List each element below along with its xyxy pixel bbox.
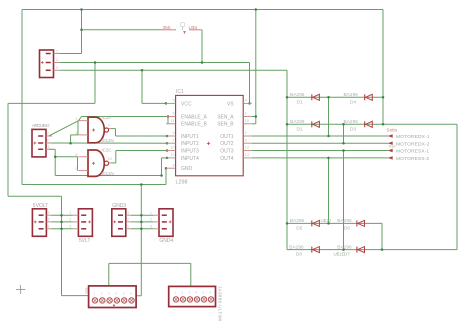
svg-text:GND4: GND4 <box>159 238 173 244</box>
svg-text:MOTORESX-2: MOTORESX-2 <box>396 156 429 162</box>
svg-text:9: 9 <box>75 167 77 171</box>
svg-text:1: 1 <box>69 211 71 215</box>
svg-text:BA296: BA296 <box>289 244 304 250</box>
svg-text:VS: VS <box>227 101 234 107</box>
svg-text:2: 2 <box>47 139 49 143</box>
svg-text:OUT1: OUT1 <box>220 134 234 140</box>
svg-text:INPUT4: INPUT4 <box>181 156 199 162</box>
svg-text:3: 3 <box>69 224 71 228</box>
svg-text:U$10: U$10 <box>321 218 332 223</box>
svg-text:JA3886-ULTIMI: JA3886-ULTIMI <box>217 286 222 322</box>
svg-text:ENABLE_A: ENABLE_A <box>181 114 208 120</box>
svg-text:OUT2: OUT2 <box>220 141 234 147</box>
svg-text:3: 3 <box>108 124 110 128</box>
svg-text:MOTOREDX-1: MOTOREDX-1 <box>396 134 430 140</box>
svg-text:GND3: GND3 <box>112 203 126 209</box>
svg-text:BA296: BA296 <box>344 92 359 98</box>
svg-text:BA296: BA296 <box>344 119 359 125</box>
svg-text:13: 13 <box>245 146 249 150</box>
svg-text:GND: GND <box>181 166 193 172</box>
svg-text:4011N: 4011N <box>101 138 114 143</box>
svg-text:3: 3 <box>47 132 49 136</box>
svg-text:12: 12 <box>170 153 174 157</box>
svg-text:VCC: VCC <box>181 101 192 107</box>
svg-text:3: 3 <box>127 211 129 215</box>
svg-text:D8: D8 <box>296 252 302 258</box>
svg-text:OUT4: OUT4 <box>220 156 234 162</box>
svg-text:15: 15 <box>245 119 249 123</box>
svg-text:8: 8 <box>75 153 77 157</box>
svg-text:D2: D2 <box>297 126 303 132</box>
svg-text:3: 3 <box>245 138 247 142</box>
svg-text:ARDUINO: ARDUINO <box>32 123 50 128</box>
svg-text:N$6: N$6 <box>389 144 396 148</box>
svg-text:1: 1 <box>150 211 152 215</box>
svg-text:11: 11 <box>171 119 175 123</box>
svg-text:IC2C: IC2C <box>102 148 112 153</box>
svg-text:2: 2 <box>69 218 71 222</box>
svg-text:IC1: IC1 <box>176 89 184 95</box>
svg-text:2: 2 <box>75 131 77 135</box>
svg-text:1: 1 <box>48 224 50 228</box>
svg-text:1: 1 <box>56 49 58 53</box>
svg-text:7: 7 <box>172 138 174 142</box>
svg-text:6: 6 <box>172 112 174 116</box>
svg-text:10: 10 <box>170 146 174 150</box>
svg-text:D6: D6 <box>344 225 350 231</box>
svg-text:2: 2 <box>48 218 50 222</box>
svg-text:4011N: 4011N <box>101 171 114 176</box>
svg-text:OUT3: OUT3 <box>220 149 234 155</box>
svg-text:L298: L298 <box>176 180 188 186</box>
svg-text:BA296: BA296 <box>290 218 305 224</box>
svg-text:SEN_A: SEN_A <box>217 114 234 120</box>
svg-text:SEN_B: SEN_B <box>217 122 234 128</box>
svg-text:5VLT: 5VLT <box>79 238 91 244</box>
svg-text:ENABLE_B: ENABLE_B <box>181 122 208 128</box>
svg-text:D3: D3 <box>350 126 356 132</box>
svg-text:INPUT3: INPUT3 <box>181 149 199 155</box>
svg-text:D1: D1 <box>297 99 303 105</box>
svg-text:1: 1 <box>245 112 247 116</box>
svg-text:5: 5 <box>172 131 174 135</box>
svg-text:14: 14 <box>245 153 249 157</box>
svg-text:2: 2 <box>150 218 152 222</box>
svg-text:IC2A: IC2A <box>102 115 112 120</box>
svg-text:3: 3 <box>150 224 152 228</box>
svg-text:Sotto: Sotto <box>387 128 398 133</box>
svg-text:BA296: BA296 <box>337 244 352 250</box>
svg-text:U$4: U$4 <box>189 25 198 31</box>
svg-text:2: 2 <box>245 131 247 135</box>
svg-text:INPUT2: INPUT2 <box>181 141 199 147</box>
svg-text:U$1Ð: U$1Ð <box>334 251 345 256</box>
svg-text:10: 10 <box>108 157 112 161</box>
svg-text:355: 355 <box>163 25 171 31</box>
svg-text:D5: D5 <box>296 225 302 231</box>
svg-text:1: 1 <box>127 224 129 228</box>
svg-text:D7: D7 <box>344 252 350 258</box>
svg-text:MOTORESX-1: MOTORESX-1 <box>396 149 429 155</box>
svg-text:D4: D4 <box>350 99 356 105</box>
svg-text:1: 1 <box>75 117 77 121</box>
svg-text:BA296: BA296 <box>337 218 352 224</box>
svg-text:9: 9 <box>172 99 174 103</box>
svg-text:MOTOREDX-2: MOTOREDX-2 <box>396 141 430 147</box>
svg-text:BA296: BA296 <box>290 92 305 98</box>
svg-text:INPUT1: INPUT1 <box>181 134 199 140</box>
svg-text:4: 4 <box>245 99 247 103</box>
svg-text:5VOLT: 5VOLT <box>33 203 48 209</box>
svg-text:1: 1 <box>48 145 50 149</box>
svg-text:BA296: BA296 <box>290 119 305 125</box>
svg-text:2: 2 <box>56 58 58 62</box>
svg-text:3: 3 <box>48 211 50 215</box>
svg-text:2: 2 <box>127 218 129 222</box>
svg-text:3: 3 <box>56 66 58 70</box>
svg-text:8: 8 <box>172 163 174 167</box>
svg-text:SV1: SV1 <box>84 288 88 295</box>
